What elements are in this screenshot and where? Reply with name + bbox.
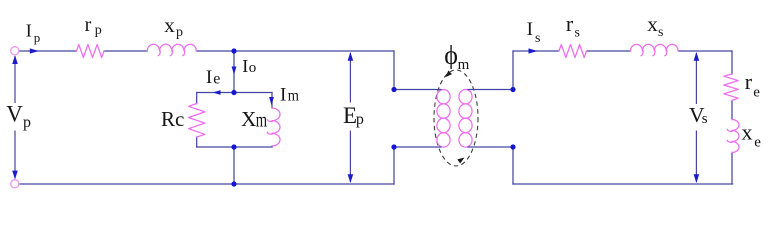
label X_m (241, 107, 267, 131)
wire bottom rail primary (19, 183, 394, 185)
wire stub from secondary winding top (468, 89, 513, 91)
voltage arrow E_p (348, 52, 354, 183)
svg-text:s: s (535, 31, 540, 46)
svg-text:r: r (566, 11, 574, 36)
label r_s (566, 11, 580, 40)
wire secondary left vertical bottom (512, 147, 514, 184)
wire between re and xe (731, 100, 733, 119)
svg-text:s: s (575, 26, 580, 41)
label V_p (6, 102, 31, 132)
svg-text:m: m (458, 57, 470, 73)
junction primary winding top (391, 87, 396, 92)
current arrow I_s (529, 48, 538, 53)
wire shunt bottom (197, 146, 272, 148)
svg-text:I: I (206, 67, 212, 88)
wire stub from secondary winding bottom (468, 146, 513, 148)
inductor x_s (631, 44, 679, 55)
resistor R_c (189, 104, 205, 138)
inductor X_m (267, 108, 280, 146)
label I_o (242, 56, 256, 76)
svg-text:r: r (745, 69, 753, 94)
label V_s (689, 103, 708, 127)
terminal primary top (11, 47, 19, 55)
current arrow I_m (269, 97, 274, 105)
svg-text:x: x (742, 119, 753, 144)
svg-text:x: x (647, 12, 658, 36)
svg-text:p: p (23, 114, 31, 131)
svg-text:I: I (280, 85, 286, 106)
junction bottom rail (231, 181, 236, 186)
junction secondary winding top (510, 87, 515, 92)
wire right edge top lead (731, 51, 733, 74)
wire primary right vertical top (393, 51, 395, 90)
junction node A top of shunt (231, 48, 236, 53)
svg-text:p: p (176, 25, 183, 40)
svg-text:p: p (356, 111, 364, 128)
label E_p (343, 103, 364, 128)
wire stub to primary winding top (394, 89, 441, 91)
label I_p (26, 21, 41, 45)
wire shunt drop to bottom rail (233, 147, 235, 184)
label I_s (527, 19, 541, 46)
svg-text:x: x (164, 13, 175, 37)
svg-text:p: p (95, 23, 102, 38)
svg-text:I: I (527, 19, 533, 40)
inductor x_p (147, 44, 196, 56)
svg-text:ϕ: ϕ (444, 41, 458, 70)
wire top rail primary (19, 50, 394, 52)
current arrow I_o (232, 67, 237, 75)
flux ellipse phi_m (dashed) (434, 70, 478, 166)
label R_c (161, 107, 184, 131)
svg-text:m: m (256, 108, 268, 131)
svg-text:X: X (241, 107, 256, 131)
label I_e (206, 67, 221, 88)
wire shunt top left (197, 92, 234, 94)
wire top rail secondary (513, 50, 732, 52)
transformer primary winding (437, 90, 450, 148)
wire Rc bottom lead (196, 137, 198, 147)
svg-text:s: s (702, 111, 708, 127)
label I_m (280, 85, 299, 106)
svg-text:V: V (6, 102, 23, 127)
junction shunt bottom (231, 144, 236, 149)
wire primary right vertical bottom (393, 147, 395, 184)
inductor x_e (727, 120, 739, 153)
wire shunt top right (234, 92, 272, 94)
wire bottom rail secondary (513, 183, 733, 185)
svg-text:I: I (26, 21, 32, 41)
label x_p (164, 13, 183, 40)
label r_p (85, 14, 102, 38)
terminal primary bottom (11, 180, 19, 188)
resistor r_s (559, 45, 587, 58)
wire shunt vertical from node A (233, 51, 235, 93)
current arrow I_p (30, 48, 39, 53)
junction secondary winding bottom (510, 144, 515, 149)
label r_e (745, 69, 761, 101)
wire Xm top lead (271, 93, 273, 109)
voltage arrow V_s (694, 52, 700, 183)
svg-text:Rc: Rc (161, 107, 184, 131)
svg-text:I: I (242, 56, 248, 76)
wire below xe (731, 153, 733, 184)
svg-text:e: e (213, 70, 220, 87)
label x_e (742, 119, 762, 150)
resistor r_e (724, 74, 738, 100)
svg-text:s: s (658, 25, 663, 40)
wire Xm bottom lead (271, 146, 273, 147)
svg-text:o: o (249, 60, 256, 76)
wire secondary left vertical top (512, 51, 514, 90)
wire stub to primary winding bottom (394, 146, 441, 148)
current arrow I_e (213, 90, 221, 95)
voltage arrow V_p (12, 55, 18, 179)
label x_s (647, 12, 663, 40)
resistor r_p (77, 45, 105, 58)
svg-text:e: e (753, 85, 760, 101)
svg-text:m: m (288, 87, 299, 105)
wire Rc top lead (196, 93, 198, 104)
label phi_m (444, 41, 469, 73)
transformer secondary winding (459, 90, 472, 148)
svg-text:e: e (754, 135, 761, 151)
svg-text:r: r (85, 14, 92, 36)
svg-text:p: p (34, 30, 41, 45)
junction shunt mid (231, 90, 236, 95)
junction primary winding bottom (391, 144, 396, 149)
